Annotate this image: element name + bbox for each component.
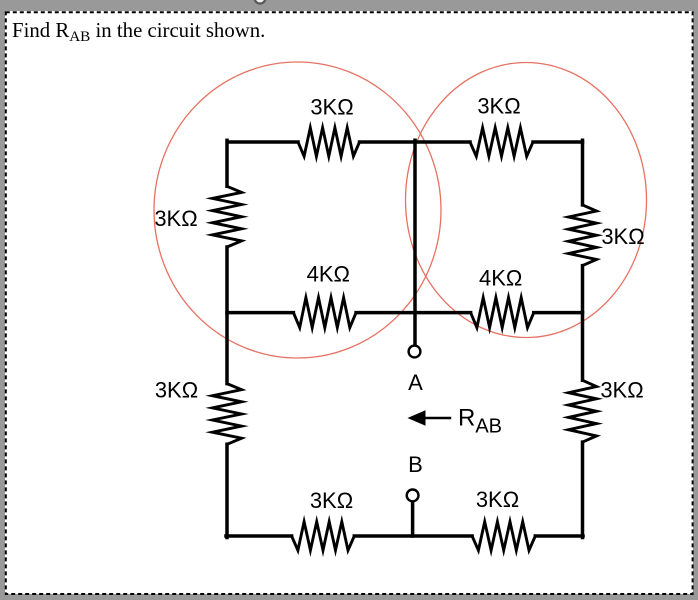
node B terminal	[407, 490, 419, 502]
resistor R8 3K right-lower zigzag	[569, 380, 597, 442]
wire bottom-right	[535, 534, 583, 538]
cropped letter artifact at top edge	[255, 0, 266, 4]
wire right vertical middle	[581, 266, 585, 381]
wire middle-row left	[227, 311, 293, 315]
wire middle-row center	[356, 311, 471, 315]
arrow RAB head	[408, 410, 426, 425]
arrow RAB shaft	[424, 417, 451, 420]
wire bottom-left	[226, 534, 292, 538]
svg-text:3KΩ: 3KΩ	[310, 95, 353, 120]
node A terminal	[409, 346, 421, 358]
wire middle vertical to node A	[413, 140, 417, 345]
wire top-right horizontal	[533, 140, 583, 144]
resistor R2 3K top-right zigzag	[470, 128, 533, 157]
resistor R6 4K mid-right zigzag	[471, 298, 534, 328]
resistor R7 3K left-lower zigzag	[212, 384, 241, 445]
svg-text:3KΩ: 3KΩ	[601, 224, 644, 249]
resistor R1 3K top-left zigzag	[298, 128, 360, 157]
red annotation circle right	[406, 63, 647, 338]
svg-text:B: B	[408, 452, 423, 477]
wire stub node B to bottom	[411, 502, 415, 536]
resistor R5 4K mid-left zigzag	[293, 298, 356, 328]
svg-text:4KΩ: 4KΩ	[307, 262, 350, 287]
svg-text:A: A	[408, 370, 423, 395]
resistor R3 3K left-upper zigzag	[212, 186, 241, 247]
svg-text:4KΩ: 4KΩ	[479, 266, 522, 291]
wire right vertical upper	[581, 140, 585, 205]
wire middle-row right	[534, 311, 583, 315]
wire top-left horizontal	[228, 140, 298, 144]
svg-text:3KΩ: 3KΩ	[154, 206, 197, 231]
resistor R10 3K bottom-right zigzag	[472, 522, 535, 551]
wire bottom-center	[354, 534, 472, 538]
resistor R9 3K bottom-left zigzag	[292, 522, 355, 551]
svg-text:3KΩ: 3KΩ	[600, 378, 643, 403]
wire right vertical lower	[581, 442, 585, 537]
wire left vertical upper	[225, 140, 229, 186]
resistor R4 3K right-upper zigzag	[569, 205, 597, 266]
wire left vertical middle	[225, 247, 229, 384]
svg-text:3KΩ: 3KΩ	[476, 487, 519, 512]
wire left vertical lower	[225, 444, 229, 537]
svg-text:3KΩ: 3KΩ	[477, 94, 520, 119]
wire top-middle horizontal	[360, 140, 471, 144]
svg-text:3KΩ: 3KΩ	[155, 378, 198, 403]
svg-text:3KΩ: 3KΩ	[310, 488, 353, 513]
red annotation circle left	[154, 62, 441, 358]
svg-text:Find RAB in the circuit shown.: Find RAB in the circuit shown.	[12, 19, 265, 45]
